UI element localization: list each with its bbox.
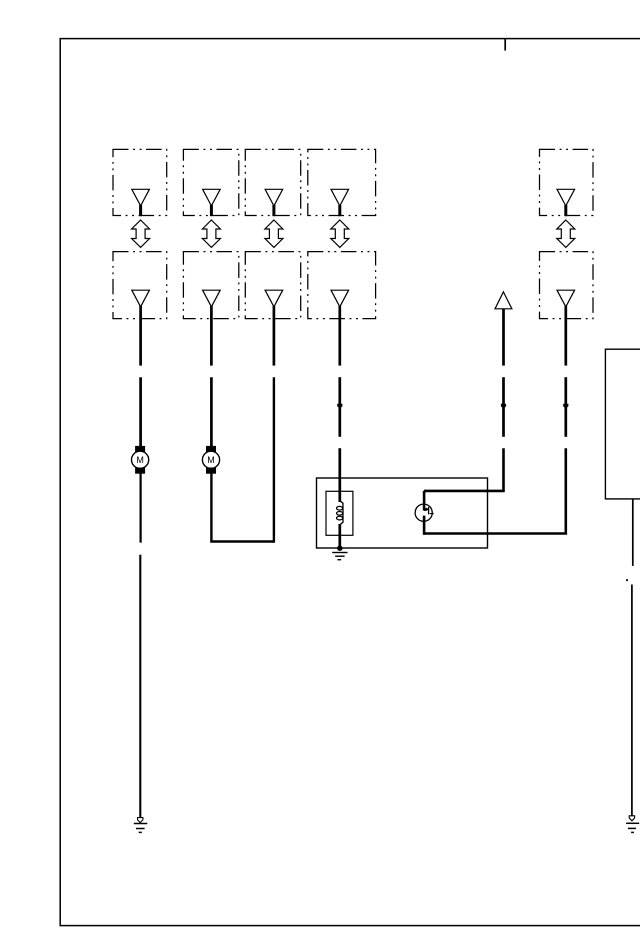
wire w4 upper [338, 306, 341, 366]
wire w5 to contact [424, 448, 504, 491]
inline connector arrow col2 [202, 220, 220, 247]
wire w3 upper [273, 306, 276, 366]
motor M1 [132, 446, 149, 474]
svg-text:M: M [136, 455, 144, 465]
pin triangle C1 top [132, 189, 150, 216]
wire w1 lower segment [139, 555, 141, 818]
pin triangle C6 top [557, 189, 575, 216]
wire w2 below motor [211, 474, 274, 542]
wire w4 third segment [338, 448, 341, 502]
wire w3 long segment [273, 377, 275, 543]
wire w4 coil to ground [338, 524, 341, 548]
wire w5 upper [502, 309, 505, 366]
wire w1 upper [139, 306, 142, 366]
pin triangle C3 top [265, 189, 283, 216]
connector box C1 top [113, 149, 167, 215]
connector box C3 bottom [245, 252, 300, 319]
svg-text:M: M [207, 455, 215, 465]
motor M2 [202, 446, 219, 474]
inline connector arrow col3 [265, 220, 283, 247]
relay coil enclosure [326, 491, 353, 535]
connector box C3 top [245, 149, 300, 215]
wire w2 second segment [210, 377, 213, 446]
connector box C2 bottom [183, 252, 238, 319]
inline connector arrow col6 [557, 220, 575, 247]
contact bottom stub [423, 516, 426, 535]
wire w6 upper [564, 306, 567, 366]
connector box C1 bottom [113, 252, 167, 319]
splice blob on w5 [501, 404, 506, 409]
tiny dot near w7 [626, 579, 628, 581]
pin triangle C1 bottom [132, 290, 150, 307]
contact inner tick [430, 513, 434, 515]
connector box C6 bottom [540, 252, 594, 319]
splice blob on w6 [563, 404, 568, 409]
pin triangle C4 bottom [331, 290, 349, 307]
splice blob on w4 [337, 404, 342, 409]
connector box C4 bottom [308, 252, 376, 319]
ground G3 junction dot [337, 546, 342, 551]
pin triangle C6 bottom [557, 290, 575, 307]
inline connector arrow col4 [331, 220, 349, 247]
relay contact circle [415, 504, 432, 521]
pin triangle C2 top [203, 189, 221, 216]
wire w1 second segment [139, 377, 142, 446]
off-page up arrow col5 [495, 292, 512, 309]
pin triangle C2 bottom [203, 290, 221, 307]
wire w4 second segment [338, 377, 341, 437]
connector box C4 top [308, 149, 376, 215]
wire w6 second segment [564, 377, 567, 437]
wire w7 lower [631, 585, 633, 816]
connector box C6 top [540, 149, 594, 215]
wire w6 to contact bottom [424, 448, 566, 533]
top border tick [504, 39, 506, 51]
connector box C2 top [183, 149, 238, 215]
pin triangle C4 top [331, 189, 349, 216]
pin triangle C3 bottom [265, 290, 283, 307]
wire w5 second segment [502, 377, 505, 437]
contact top stub [424, 491, 428, 510]
wire w1 below motor [140, 474, 142, 543]
relay coil [337, 501, 344, 525]
wire w7 upper [632, 499, 634, 566]
ground G3 [332, 553, 347, 560]
relay box [317, 478, 488, 548]
inline connector arrow col1 [132, 220, 150, 247]
contact inner bar [428, 507, 430, 515]
wire w2 upper [210, 306, 213, 366]
ground G2 [626, 816, 639, 833]
ground G1 [134, 818, 148, 833]
component box right [605, 349, 640, 499]
